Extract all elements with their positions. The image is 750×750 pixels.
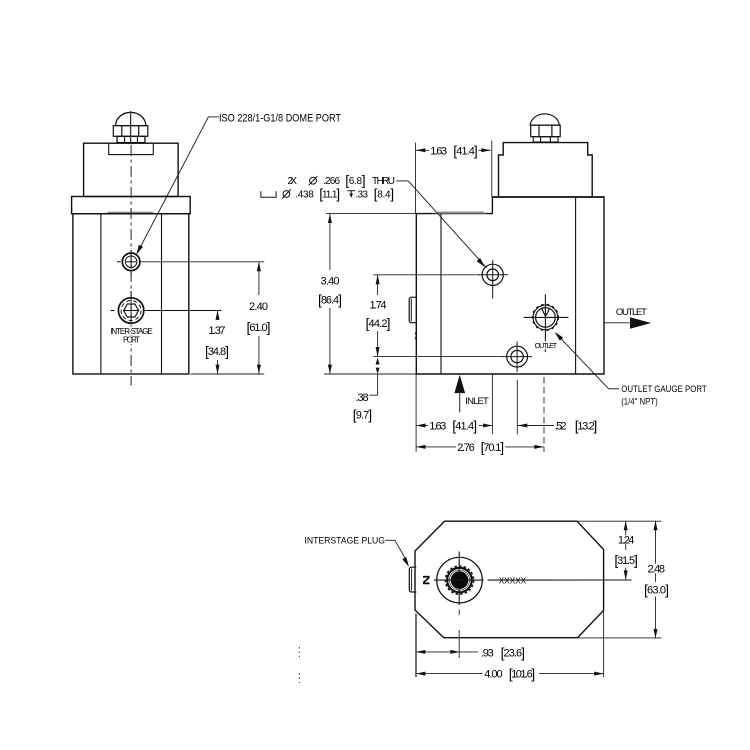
small tick marks below plug on edge <box>415 332 417 339</box>
stray dots <box>298 647 300 683</box>
dim 3.40 extension bottom <box>324 373 416 375</box>
body inner line left (right view) <box>440 214 442 374</box>
interstage plug bottom view <box>409 567 416 592</box>
diameter symbol line1 <box>309 176 318 185</box>
hex nut left <box>113 126 148 137</box>
svg-text:[63.0]: [63.0] <box>644 582 669 598</box>
INTER-STAGE PORT label <box>108 327 155 345</box>
svg-text:.52: .52 <box>555 421 567 433</box>
svg-text:[101.6]: [101.6] <box>509 666 535 682</box>
svg-text:1.63: 1.63 <box>429 421 446 433</box>
bonnet left view <box>84 143 179 196</box>
svg-text:OUTLET: OUTLET <box>535 341 558 350</box>
label OUTLET GAUGE PORT <box>621 384 707 408</box>
leader outlet gauge port <box>556 333 619 389</box>
svg-text:2.76: 2.76 <box>457 442 475 454</box>
svg-text:PORT: PORT <box>123 336 140 345</box>
svg-text:.38: .38 <box>356 392 369 404</box>
body right view outline <box>416 197 604 374</box>
outlet port right view <box>533 305 559 331</box>
svg-text:[86.4]: [86.4] <box>318 292 342 308</box>
dim top 1.63 arrows <box>416 148 425 152</box>
centerline horizontal bottom view <box>434 579 484 581</box>
dim bottom 1.63 text <box>429 418 477 434</box>
svg-text:ISO 228/1-G1/8 DOME PORT: ISO 228/1-G1/8 DOME PORT <box>219 113 341 125</box>
leader ISO dome port <box>137 117 219 253</box>
octagon body outline bottom view <box>415 521 604 638</box>
svg-text:1.37: 1.37 <box>209 325 226 337</box>
BOTTOM VIEW GROUP <box>299 521 669 683</box>
dome port crosshair <box>117 251 136 276</box>
leader interstage plug <box>385 540 408 563</box>
dim 2.40 line <box>258 262 260 374</box>
dim 2.40 extension line top <box>141 261 264 263</box>
svg-text:.438: .438 <box>295 190 314 201</box>
svg-text:[61.0]: [61.0] <box>247 319 271 335</box>
svg-text:INTER-STAGE: INTER-STAGE <box>110 327 153 336</box>
dome cap nut left <box>116 112 146 125</box>
svg-text:.33: .33 <box>355 190 368 201</box>
dim 2.40 arrows <box>257 262 261 271</box>
dim 1.24 line <box>625 521 627 580</box>
svg-text:[70.1]: [70.1] <box>481 439 505 455</box>
svg-text:2.40: 2.40 <box>249 301 268 313</box>
dim 1.74 extension top <box>373 274 476 276</box>
RIGHT VIEW GROUP <box>261 114 707 455</box>
interstage plug side profile <box>409 297 416 323</box>
leader arrowhead ISO <box>136 245 143 255</box>
dim 1.74 arrows <box>376 275 380 284</box>
dim 2.40 extension line bottom <box>191 373 265 375</box>
dim top 1.63 line <box>416 149 491 151</box>
svg-text:2X: 2X <box>287 176 297 187</box>
dim bottom 1.63 line <box>416 425 492 427</box>
svg-text:1.24: 1.24 <box>618 535 635 547</box>
leader arrowhead outlet gauge <box>555 332 564 341</box>
dome port circle <box>122 253 140 271</box>
OUTLET small label <box>534 341 558 349</box>
diameter symbol line2 <box>282 189 291 198</box>
dim 3.40 text <box>318 276 342 308</box>
depth symbol line2 <box>348 191 356 195</box>
body inner line left <box>100 214 102 374</box>
jam nut left <box>117 136 145 142</box>
dim .38 arrow pair inside <box>376 358 380 365</box>
inlet port thread rings <box>445 566 473 594</box>
outlet gauge hole <box>507 346 528 367</box>
dim 1.37 line <box>217 311 219 375</box>
label counterbore line2 <box>295 186 394 202</box>
svg-text:[13.2]: [13.2] <box>575 418 598 434</box>
dim 4.00 line <box>416 673 604 675</box>
dim .93 text <box>481 645 525 661</box>
svg-text:[34.8]: [34.8] <box>205 343 229 359</box>
dome cap nut right <box>530 114 559 125</box>
dim .52 line <box>518 425 554 427</box>
dim 1.74 extension bottom <box>373 355 503 357</box>
chamfer sliver right view <box>435 212 487 214</box>
jam nut right <box>533 137 558 142</box>
svg-text:1.63: 1.63 <box>430 145 447 157</box>
dim 4.00 arrows <box>416 672 425 676</box>
dim 3.40 extension top <box>326 213 416 215</box>
dim bottom 1.63 arrows <box>416 424 425 428</box>
inter-stage crosshair / extension to 1.37 <box>111 291 222 330</box>
dim .52 arrows <box>518 424 527 428</box>
svg-text:N: N <box>421 575 431 585</box>
svg-text:4.00: 4.00 <box>484 669 502 681</box>
svg-text:3.40: 3.40 <box>321 276 340 288</box>
svg-text:[44.2]: [44.2] <box>366 315 391 331</box>
counterbore hole crosshair <box>477 260 508 299</box>
svg-text:1.74: 1.74 <box>370 299 387 311</box>
dim 3.40 line <box>329 214 331 374</box>
bonnet right view with corner steps <box>499 143 593 197</box>
svg-text:OUTLET GAUGE PORT: OUTLET GAUGE PORT <box>621 384 707 395</box>
svg-text:[41.4]: [41.4] <box>452 418 477 434</box>
flange left view <box>72 197 191 214</box>
svg-text:[9.7]: [9.7] <box>353 407 373 423</box>
counterbore hole right view <box>482 264 503 285</box>
dim top 1.63 extensions <box>416 141 492 214</box>
INLET arrow <box>454 375 465 393</box>
centerline vertical left view <box>130 111 132 143</box>
svg-text:[11.1]: [11.1] <box>319 186 340 202</box>
LEFT VIEW GROUP <box>72 111 342 386</box>
inter-stage port <box>118 298 143 323</box>
dim .93 arrows <box>416 650 425 654</box>
svg-text:INLET: INLET <box>465 396 489 407</box>
outlet flow line <box>604 322 634 324</box>
svg-text:[31.5]: [31.5] <box>614 552 638 568</box>
bottom extension verticals <box>416 374 544 452</box>
dim 2.48 line <box>655 521 657 639</box>
dim 2.76 text <box>457 439 504 455</box>
svg-text:2.48: 2.48 <box>648 564 666 576</box>
centerline vertical bottom view <box>458 552 460 659</box>
dim 1.74 text <box>366 299 391 331</box>
bottom dims extension verticals <box>416 611 604 678</box>
dim 1.24 arrows <box>624 521 628 530</box>
dim .52 text <box>555 418 597 434</box>
outlet port crosshair <box>524 294 569 352</box>
svg-text:[8.4]: [8.4] <box>374 186 395 202</box>
svg-text:[41.4]: [41.4] <box>453 142 478 158</box>
body inner line right <box>161 214 163 374</box>
dim 2.76 arrows <box>416 445 425 449</box>
leader arrowhead 2X <box>477 258 485 267</box>
dim 2.48 arrows <box>654 521 658 530</box>
dim .38 text <box>353 392 373 423</box>
dim 1.24 text <box>614 535 638 568</box>
svg-text:[6.8]: [6.8] <box>345 172 366 188</box>
dim 4.00 text <box>484 666 535 682</box>
dim 1.74 line <box>377 275 379 357</box>
leader arrowhead interstage plug <box>402 557 409 567</box>
label 2X .266 THRU line1 <box>287 172 395 188</box>
svg-text:[23.6]: [23.6] <box>501 645 525 661</box>
counterbore symbol <box>261 191 276 197</box>
body left view <box>73 214 189 374</box>
dim 2.48 extension bottom edge <box>579 637 662 639</box>
svg-text:(1/4" NPT): (1/4" NPT) <box>621 397 658 408</box>
bonnet top step recess <box>109 143 154 154</box>
dim 1.24 extension top edge <box>578 520 662 522</box>
dim 3.40 arrows <box>328 214 332 223</box>
chamfer sliver left view <box>105 212 155 214</box>
dim 2.76 line <box>416 446 544 448</box>
outlet port inner V detail <box>542 308 550 316</box>
svg-text:.93: .93 <box>481 648 494 660</box>
svg-text:OUTLET: OUTLET <box>616 307 647 318</box>
dim .38 line below <box>369 374 377 395</box>
dim 1.37 text <box>205 325 229 359</box>
leader 2X THRU <box>396 181 486 268</box>
body inner line right (right view) <box>575 197 577 374</box>
dim .93 line <box>416 651 478 653</box>
dim 2.48 text <box>644 564 669 598</box>
dim top 1.63 text <box>430 142 478 158</box>
body top edge between bonnet <box>492 196 604 198</box>
gauge hole crosshair <box>502 342 532 373</box>
outlet flow arrow <box>630 317 651 329</box>
hex nut right <box>531 125 561 137</box>
dim 2.40 text <box>247 301 271 335</box>
dim 1.37 arrows <box>216 311 220 320</box>
inlet port outer circle <box>437 557 483 603</box>
svg-text:INTERSTAGE PLUG: INTERSTAGE PLUG <box>305 535 386 545</box>
